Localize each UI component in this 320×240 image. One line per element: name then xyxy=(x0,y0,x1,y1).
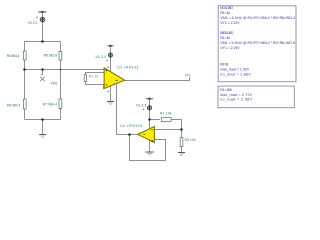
wire bridge ground stem xyxy=(42,120,44,134)
svg-text:R7 984.4: R7 984.4 xyxy=(43,103,57,107)
wire U2 Vminus to ground xyxy=(110,86,112,101)
wire left branch xyxy=(24,42,26,120)
wire crossing right branch xyxy=(60,69,62,71)
U2 V- pin number xyxy=(108,90,110,93)
wire bridge mid to U2 +in xyxy=(25,69,105,71)
U2 output pin number xyxy=(116,80,118,81)
resistor R4 xyxy=(23,51,26,60)
svg-text:VY1 = 2.12V: VY1 = 2.12V xyxy=(220,21,240,25)
svg-text:R4 984.4: R4 984.4 xyxy=(7,54,20,58)
annotation text top box xyxy=(220,6,295,77)
svg-text:max_load = 2.72V: max_load = 2.72V xyxy=(220,93,252,97)
wire U2 output to VY1 xyxy=(125,77,190,80)
wire bottom rail xyxy=(25,119,61,121)
svg-text:U2 INA333: U2 INA333 xyxy=(117,66,138,70)
svg-text:R1 = 1k: R1 = 1k xyxy=(220,36,230,40)
U2 V+ pin number xyxy=(108,66,110,69)
power bar V3 xyxy=(146,98,153,99)
wire U1 supply stub xyxy=(149,120,151,129)
wire R2 row xyxy=(150,120,182,130)
resistor R7 xyxy=(59,99,62,109)
svg-text:R1 = 1k: R1 = 1k xyxy=(220,11,230,15)
junction bottom rail ground xyxy=(41,118,44,121)
ground (R3) xyxy=(178,153,185,156)
junction V0/top rail xyxy=(41,40,44,43)
wire V0 stem xyxy=(42,12,44,41)
power bar V0 xyxy=(38,11,46,12)
svg-text:R1 1k: R1 1k xyxy=(89,74,99,78)
V1 polarity plus xyxy=(106,60,108,62)
resistor R5 xyxy=(59,51,62,60)
svg-text:VY1 = 2.19V: VY1 = 2.19V xyxy=(220,46,240,50)
svg-text:V1 3.3: V1 3.3 xyxy=(95,55,106,59)
junction left bridge midpoint xyxy=(23,68,26,71)
source V1 xyxy=(109,53,113,57)
svg-text:R6 987.4: R6 987.4 xyxy=(7,103,20,107)
svg-text:R3 10k: R3 10k xyxy=(185,138,196,142)
V0 polarity plus xyxy=(36,17,38,19)
wire U1 output xyxy=(117,134,138,136)
svg-text:max_load = 1.92V: max_load = 1.92V xyxy=(220,68,250,72)
svg-text:V0 2.2: V0 2.2 xyxy=(28,21,38,25)
power bar V1 xyxy=(108,45,114,46)
svg-text:BAD LOAD: BAD LOAD xyxy=(220,31,234,35)
svg-text:R2 10k: R2 10k xyxy=(160,111,172,115)
U1 -in pin mark xyxy=(151,129,153,131)
svg-text:no_load = 2.58V: no_load = 2.58V xyxy=(220,98,252,102)
source V0 xyxy=(40,17,45,22)
junction U1 output/feedback xyxy=(128,133,131,136)
wire U1 feedback loop xyxy=(130,135,166,161)
U2 -in pin mark xyxy=(106,84,108,86)
junction R2/R3/U1 -in xyxy=(180,128,183,131)
U2 REF pin number xyxy=(113,83,115,86)
resistor R3 xyxy=(180,138,183,147)
pin polarity marks xyxy=(106,69,154,142)
U1 +in pin mark xyxy=(151,140,153,142)
wire VM1 probe stub xyxy=(41,70,43,76)
wire R3 column xyxy=(181,130,183,153)
svg-text:V3 3.3: V3 3.3 xyxy=(136,103,146,107)
wire U1 -in row xyxy=(155,129,182,131)
svg-text:VM1 = 5.3mV @ R4+R7=984.4 * R5: VM1 = 5.3mV @ R4+R7=984.4 * R5+R6=987.6 xyxy=(220,41,295,45)
wire V3 supply stem xyxy=(149,99,151,120)
svg-text:R1 = 2k: R1 = 2k xyxy=(220,63,228,67)
svg-text:U1 OPA333: U1 OPA333 xyxy=(120,124,142,128)
annotation box top xyxy=(218,6,296,82)
V3 polarity plus xyxy=(143,109,145,111)
op-amp U1 (OPA333) xyxy=(138,126,155,142)
wire U2 REF pin down xyxy=(116,84,118,135)
op-amp U2 (INA) xyxy=(104,68,125,89)
junction VM1 probe node xyxy=(41,68,44,71)
svg-text:R1 = 600: R1 = 600 xyxy=(220,88,232,92)
svg-text:R5 981.8: R5 981.8 xyxy=(44,54,58,58)
svg-text:VY1: VY1 xyxy=(185,74,191,78)
source V3 xyxy=(147,106,151,110)
U1 output pin number xyxy=(144,134,146,135)
wire top rail xyxy=(25,41,61,43)
svg-text:VM1 = 4.2mV @ R4+R7=984.4 * R5: VM1 = 4.2mV @ R4+R7=984.4 * R5+R6=981.4 xyxy=(220,16,295,20)
annotation text bottom box xyxy=(220,88,252,102)
U2 +in pin mark xyxy=(106,69,108,71)
wire RG loop top xyxy=(86,73,105,89)
wire U1 Vminus to ground xyxy=(149,140,151,152)
svg-text:NO LOAD: NO LOAD xyxy=(220,6,233,10)
svg-text:no_load = 1.88V: no_load = 1.88V xyxy=(220,73,251,77)
resistor R2 xyxy=(161,118,171,122)
svg-text:VM1: VM1 xyxy=(51,81,58,85)
junction V3/R2/U1 supply xyxy=(148,118,151,121)
ground (U1) xyxy=(145,152,153,155)
ground (U2) xyxy=(107,102,114,105)
wire V1 supply stem xyxy=(110,47,112,72)
ground (bridge) xyxy=(39,135,46,138)
resistor R6 xyxy=(23,99,26,109)
annotation box bottom xyxy=(218,86,294,108)
VM1 probe X xyxy=(40,77,45,82)
wire right branch xyxy=(60,42,62,120)
resistor R1 (gain) xyxy=(84,75,86,82)
